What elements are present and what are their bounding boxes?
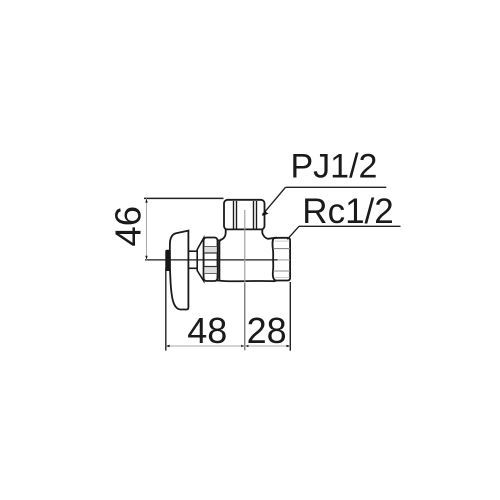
svg-text:48: 48 <box>187 310 227 351</box>
svg-text:Rc1/2: Rc1/2 <box>302 192 393 231</box>
svg-text:46: 46 <box>108 206 149 247</box>
svg-text:PJ1/2: PJ1/2 <box>291 148 378 186</box>
svg-text:28: 28 <box>247 310 287 351</box>
